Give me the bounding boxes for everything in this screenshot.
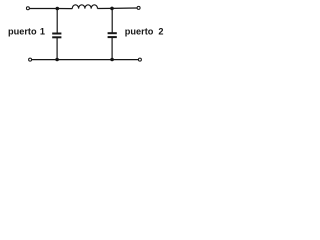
wire: bottom rail (port1 bottom to port2 bottom) bbox=[32, 59, 139, 61]
wire: inductor end to node B bbox=[98, 7, 113, 9]
port 1 bottom terminal (open circle) bbox=[29, 58, 32, 61]
wire: C1 bottom plate down to bottom rail bbox=[56, 38, 58, 60]
capacitor C1 (left shunt) plates bbox=[52, 33, 61, 35]
port 1 top terminal (open circle) bbox=[26, 7, 29, 10]
svg-text:1: 1 bbox=[40, 26, 45, 36]
wire: node B to port2 top terminal bbox=[112, 7, 137, 9]
label: puerto 2 bbox=[125, 26, 164, 36]
wire: stub node A down to C1 top plate bbox=[56, 9, 58, 34]
wire: C2 bottom plate down to bottom rail bbox=[111, 37, 113, 59]
label: puerto 1 bbox=[8, 26, 45, 36]
port 2 top terminal (open circle) bbox=[137, 6, 140, 9]
wire: top rail node A to inductor start bbox=[57, 8, 72, 10]
junction dot bottom right bbox=[110, 58, 114, 62]
wire: stub node B down to C2 top plate bbox=[111, 8, 113, 32]
inductor L1 (4 loops) bbox=[72, 5, 97, 9]
capacitor C2 (right shunt) plates bbox=[108, 32, 117, 34]
node A junction dot (top left) bbox=[56, 7, 60, 11]
port 2 bottom terminal (open circle) bbox=[138, 58, 141, 61]
svg-text:2: 2 bbox=[158, 26, 163, 36]
node B junction dot (top right) bbox=[110, 7, 114, 11]
junction dot bottom left bbox=[55, 58, 59, 62]
wire: top rail left segment (port1 top to node A) bbox=[30, 8, 58, 10]
svg-text:puerto: puerto bbox=[8, 26, 37, 36]
svg-text:puerto: puerto bbox=[125, 26, 154, 36]
